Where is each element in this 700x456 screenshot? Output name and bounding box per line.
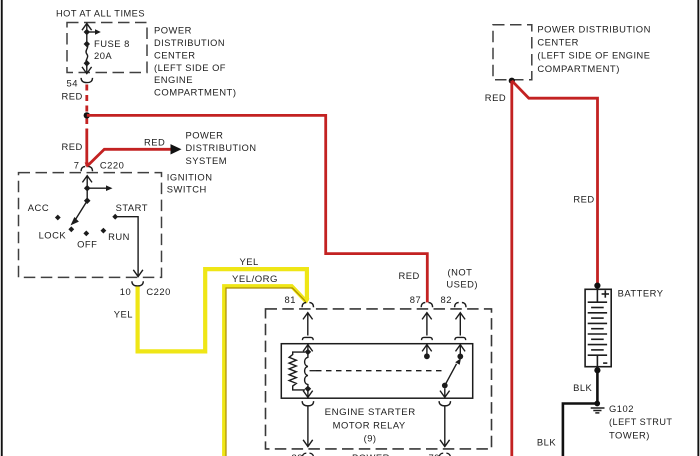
wire from START to connector 10 [115,217,143,277]
svg-text:RUN: RUN [108,231,130,242]
node battery bottom [594,367,600,373]
YEL/ORG orange stripe [226,288,306,456]
svg-text:ENGINE: ENGINE [154,74,193,85]
relay 82 contact and switch blade [445,344,465,385]
ignition switch box [19,173,162,278]
connector 54 [81,78,92,83]
fuse F8 symbol [82,23,101,74]
svg-text:YEL/ORG: YEL/ORG [232,273,278,284]
label POWER DISTRIBUTION CENTER (LEFT SIDE OF ENGINE COMPARTMENT) [154,25,237,98]
relay coil K1 [289,344,313,397]
relay inner solid box [281,344,472,399]
svg-text:HOT AT ALL TIMES: HOT AT ALL TIMES [56,7,145,18]
svg-text:OFF: OFF [77,238,97,249]
svg-text:FUSE 8: FUSE 8 [94,38,130,49]
svg-text:RED: RED [144,137,165,148]
coil terminal diamond bottom [305,386,312,392]
coil bottom lead [307,390,309,392]
position START [112,214,118,220]
svg-text:20A: 20A [94,50,112,61]
wire red branch to power distribution system [87,149,171,166]
wire switch to bottom pin [440,407,450,447]
svg-text:POWER: POWER [352,452,390,456]
bottom cut connector [439,453,450,456]
page border right [697,0,699,456]
svg-text:54: 54 [67,78,78,89]
svg-text:SYSTEM: SYSTEM [186,155,228,166]
red wire tip at connector 7 [85,163,89,168]
svg-text:COMPARTMENT): COMPARTMENT) [154,87,237,98]
svg-text:SWITCH: SWITCH [167,183,207,194]
connector 7 [81,167,92,172]
svg-text:DISTRIBUTION: DISTRIBUTION [154,37,225,48]
svg-text:BATTERY: BATTERY [618,287,664,298]
svg-text:IGNITION: IGNITION [167,171,213,182]
position RUN [101,228,107,234]
svg-text:10: 10 [120,286,131,297]
wire BLK from ground to bottom left [563,404,596,456]
svg-text:MOTOR RELAY: MOTOR RELAY [333,420,406,431]
page border left [1,0,3,456]
mechanical link dashed [310,370,317,372]
svg-text:CENTER: CENTER [154,49,196,60]
coil left resistor branch [289,352,305,390]
connector 10 [132,281,143,286]
svg-text:POWER DISTRIBUTION: POWER DISTRIBUTION [537,23,651,34]
svg-text:C220: C220 [146,286,170,297]
switch arm [76,201,88,220]
junction node [84,112,90,118]
svg-text:RED: RED [573,194,594,205]
relay pin 82 internal [455,312,466,340]
svg-text:(9): (9) [364,432,377,443]
svg-text:RED: RED [399,270,420,281]
wire red to battery [512,81,598,286]
svg-text:YEL: YEL [240,256,259,267]
arrowhead power distribution system [171,144,182,154]
relay pin 81 internal [302,312,313,340]
wire red to C220-7 [85,129,88,166]
relay 87 contact [422,344,432,356]
svg-text:YEL: YEL [114,308,133,319]
connector below coil [302,401,313,406]
svg-text:POWER: POWER [186,130,224,141]
node dots ignition [84,185,91,192]
svg-text:BLK: BLK [573,382,592,393]
svg-text:USED): USED) [446,279,478,290]
wire YEL/ORG from bottom to relay 81 [224,286,307,456]
svg-text:BLK: BLK [537,436,556,447]
fuse box (power distribution center, left) [67,23,147,73]
wire YEL from ignition to relay 81 [138,269,307,351]
svg-text:(LEFT STRUT: (LEFT STRUT [609,416,673,427]
svg-text:TOWER): TOWER) [609,429,650,440]
svg-text:79: 79 [429,452,440,456]
svg-text:88: 88 [292,452,303,456]
svg-text:(LEFT SIDE OF: (LEFT SIDE OF [154,62,226,73]
svg-text:ACC: ACC [28,202,49,213]
bottom cut connector [302,453,313,456]
svg-text:(LEFT SIDE OF ENGINE: (LEFT SIDE OF ENGINE [537,50,650,61]
relay pin 87 internal [422,312,433,340]
svg-text:(NOT: (NOT [448,266,473,277]
wire red down left branch [510,81,513,456]
ignition switch internals [71,175,113,225]
wire BLK battery to ground [596,370,599,403]
svg-text:COMPARTMENT): COMPARTMENT) [537,63,620,74]
svg-text:DISTRIBUTION: DISTRIBUTION [186,142,257,153]
position LOCK [68,226,74,232]
coil inductor branch [305,355,308,388]
wire red dashed below junction [85,119,88,130]
svg-text:RED: RED [62,91,83,102]
connector 87 [421,303,432,308]
wire coil to bottom pin [303,407,313,447]
svg-text:82: 82 [441,294,452,305]
svg-text:ENGINE STARTER: ENGINE STARTER [325,406,416,417]
battery [585,289,611,366]
wire RED dashed from fuse to junction [85,85,88,113]
relay box (engine starter motor relay) [266,309,492,449]
coil terminal diamond top [305,349,312,355]
ground G102 [594,401,600,407]
svg-text:LOCK: LOCK [39,230,67,241]
svg-text:POWER: POWER [154,25,192,36]
connector 82 [455,303,466,308]
node at PDC right [509,78,515,84]
yellow wire tip at 81 [304,299,309,304]
label POWER DISTRIBUTION SYSTEM [186,130,257,166]
svg-text:CENTER: CENTER [537,37,579,48]
connector 81 [302,303,313,308]
wire red to right PDC branch [87,115,428,302]
svg-text:C220: C220 [100,159,124,170]
svg-text:7: 7 [74,159,80,170]
label POWER DISTRIBUTION CENTER (LEFT SIDE OF ENGINE COMPARTMENT) [537,23,651,74]
svg-text:87: 87 [410,294,421,305]
svg-text:RED: RED [62,141,83,152]
svg-text:G102: G102 [609,403,634,414]
power distribution center box (right) [493,25,532,80]
position OFF [83,231,89,237]
position ACC [55,215,61,221]
svg-text:81: 81 [285,294,296,305]
switch bottom lead [440,388,450,397]
svg-text:RED: RED [485,92,506,103]
svg-text:START: START [116,202,148,213]
node battery top [594,283,600,289]
connector below switch [439,401,450,406]
